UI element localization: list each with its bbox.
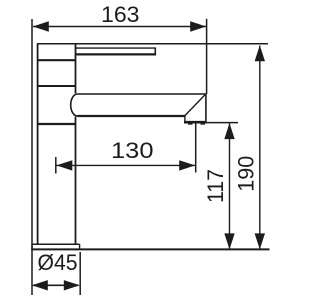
spout: aerator nub left (188, 123, 193, 125)
wire: left extension line (base left edge / 163 + Ø45 extension) (31, 19, 33, 295)
wire: 190 dimension line (259, 46, 261, 249)
svg-text:163: 163 (101, 2, 140, 27)
faucet body column (37, 44, 39, 245)
arrow bottom of 190 (255, 233, 265, 249)
spout: right end vertical (205, 94, 207, 122)
lever handle: bottom edge (75, 53, 155, 55)
arrow left of 130 (56, 160, 72, 170)
body divider 1 (38, 59, 76, 61)
svg-text:130: 130 (111, 138, 154, 163)
wire: 117 dimension line (229, 124, 231, 249)
spout: bottom edge (78, 115, 186, 117)
spout: rounded left cap (71, 94, 78, 116)
faucet body right edge lower part (75, 117, 77, 245)
arrow right of 130 (179, 160, 195, 170)
wire: 130 dimension line (57, 164, 196, 166)
wire: horizontal extension from outlet to 117 dim (207, 122, 239, 124)
arrow right of Ø45 (64, 280, 80, 290)
body divider 3 (38, 123, 76, 125)
svg-text:117: 117 (203, 169, 228, 203)
wire: top extension line (body/lever top out to 190 dim) (37, 43, 268, 45)
wire: right extension line at spout tip for 163 (206, 19, 208, 94)
arrow left of Ø45 (32, 280, 48, 290)
arrow right of 163 (190, 21, 206, 31)
arrow left of 163 (33, 21, 49, 31)
spout: outlet aerator bottom (184, 121, 207, 124)
spout: aerator nub right (201, 123, 206, 125)
base plate left (31, 244, 33, 250)
arrow top of 190 (255, 45, 265, 61)
spout: top edge (78, 93, 207, 95)
wire: base bottom + ground line to dims (31, 248, 269, 250)
base plate top (32, 243, 80, 245)
node: center axis tick for 130 (55, 157, 57, 174)
lever handle: right end cap (154, 47, 156, 55)
wire: 163 dimension line (33, 26, 206, 28)
svg-text:Ø45: Ø45 (38, 250, 78, 275)
wire: Ø45 dimension line with outward arrows (33, 284, 79, 286)
svg-text:190: 190 (234, 156, 259, 192)
base plate right (79, 244, 81, 250)
spout: outlet left vertical (184, 116, 186, 122)
arrow bottom of 117 (224, 233, 234, 249)
lever handle: inner top edge (75, 47, 155, 49)
wire: extension line down from outlet for 130 (195, 124, 197, 173)
body divider 2 (38, 85, 76, 87)
wire: right extension line below base for Ø45 (79, 252, 81, 295)
arrow top of 117 (224, 123, 234, 139)
spout: diagonal cut (185, 94, 206, 115)
